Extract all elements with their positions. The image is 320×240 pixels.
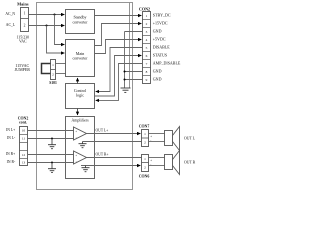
svg-text:Amplifiers: Amplifiers	[71, 118, 89, 123]
svg-text:6: 6	[146, 54, 148, 58]
svg-text:DISABLE: DISABLE	[153, 45, 170, 50]
svg-text:1: 1	[146, 14, 148, 18]
svg-text:13: 13	[22, 161, 26, 165]
svg-text:OUT R: OUT R	[184, 161, 196, 165]
svg-text:8: 8	[146, 70, 148, 74]
svg-text:-: -	[76, 135, 77, 139]
svg-text:-: -	[150, 138, 151, 142]
svg-text:2: 2	[144, 166, 146, 170]
svg-text:3: 3	[146, 30, 148, 34]
svg-text:Mains: Mains	[17, 2, 29, 7]
svg-text:1: 1	[52, 63, 54, 67]
svg-text:OUT R+: OUT R+	[96, 152, 109, 156]
svg-text:GND: GND	[153, 77, 162, 82]
svg-text:OUT L: OUT L	[184, 137, 196, 141]
svg-text:7: 7	[146, 62, 148, 66]
svg-text:AMP_DISABLE: AMP_DISABLE	[153, 61, 181, 66]
svg-text:cont.: cont.	[19, 121, 27, 125]
svg-text:5: 5	[146, 46, 148, 50]
svg-text:1: 1	[24, 11, 26, 15]
svg-text:CON6: CON6	[139, 174, 150, 178]
svg-text:1: 1	[144, 132, 146, 136]
svg-text:12: 12	[22, 153, 26, 157]
svg-text:4: 4	[146, 38, 148, 42]
svg-text:1: 1	[144, 157, 146, 161]
svg-text:AC_N: AC_N	[5, 12, 15, 16]
svg-text:IN L+: IN L+	[6, 128, 15, 132]
svg-text:11: 11	[22, 137, 26, 141]
svg-text:2: 2	[144, 141, 146, 145]
svg-text:2: 2	[52, 73, 54, 77]
svg-text:STBY_DC: STBY_DC	[153, 13, 171, 18]
svg-text:S101: S101	[49, 81, 57, 85]
svg-text:converter: converter	[72, 19, 88, 24]
svg-text:OUT L+: OUT L+	[96, 129, 109, 133]
svg-text:+5VDC: +5VDC	[153, 37, 166, 42]
svg-text:GND: GND	[153, 29, 162, 34]
svg-text:converter: converter	[72, 56, 88, 61]
svg-text:2: 2	[146, 22, 148, 26]
svg-text:-: -	[150, 162, 151, 166]
svg-text:AC_L: AC_L	[6, 23, 16, 27]
svg-text:GND: GND	[153, 69, 162, 74]
svg-text:-: -	[76, 159, 77, 163]
svg-text:IN L-: IN L-	[7, 136, 16, 140]
svg-text:10: 10	[22, 129, 26, 133]
svg-text:VAC: VAC	[19, 40, 27, 44]
svg-text:CON2: CON2	[139, 7, 150, 12]
svg-text:STATUS: STATUS	[153, 53, 167, 58]
svg-text:IN R-: IN R-	[7, 160, 16, 164]
svg-text:IN R+: IN R+	[6, 152, 15, 156]
svg-text:2: 2	[24, 23, 26, 27]
svg-text:+: +	[75, 153, 77, 157]
svg-text:CON7: CON7	[139, 125, 150, 129]
svg-text:+15VDC: +15VDC	[153, 21, 168, 26]
svg-text:9: 9	[146, 78, 148, 82]
svg-text:logic: logic	[76, 93, 84, 98]
svg-text:JUMPER: JUMPER	[15, 67, 31, 72]
svg-text:+: +	[75, 129, 77, 133]
